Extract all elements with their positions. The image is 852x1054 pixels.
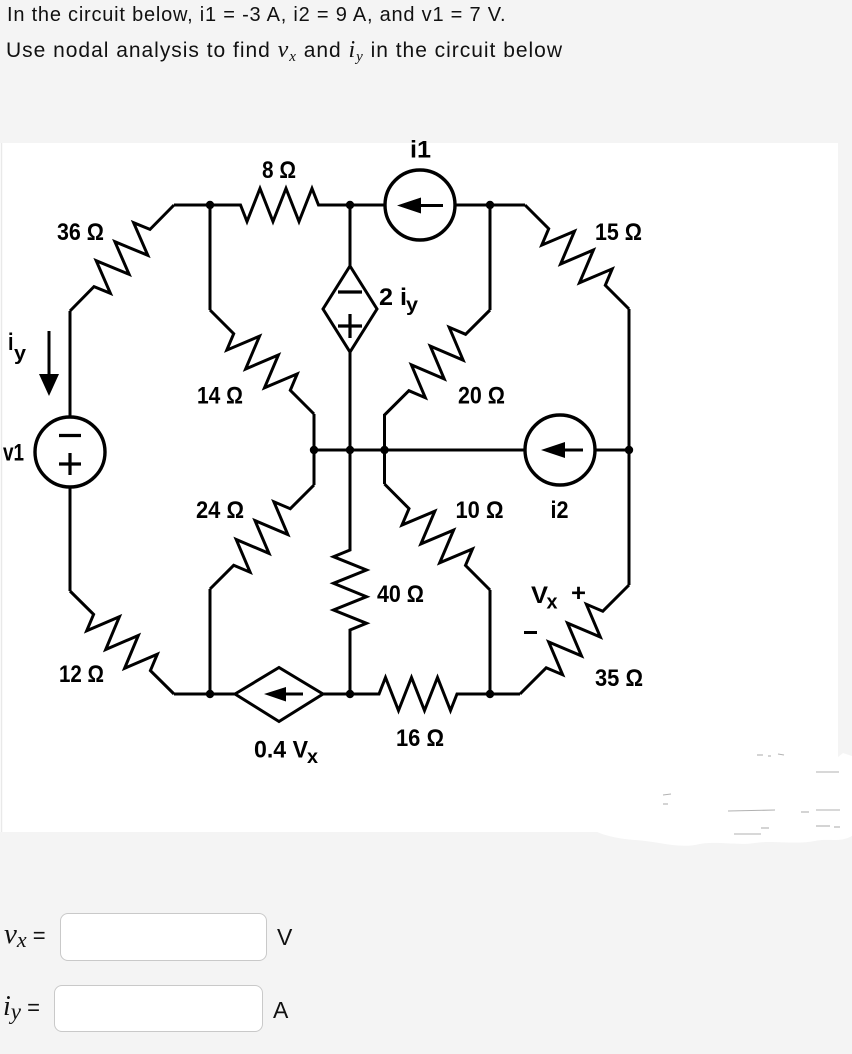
white corner patch (erased area): [838, 753, 852, 831]
svg-text:V: V: [531, 582, 548, 609]
resistor 16 ohm: [350, 678, 490, 711]
node H (bottom-left) junction dot: [206, 690, 214, 698]
node G (mid-right) junction dot: [625, 446, 633, 454]
resistor 8 ohm: [210, 189, 350, 222]
svg-text:20 Ω: 20 Ω: [458, 383, 505, 410]
wire v1 to 12-ohm vertical: [69, 487, 72, 591]
svg-text:i1: i1: [410, 137, 431, 164]
wire 36-ohm to v1 vertical: [69, 311, 72, 417]
svg-text:y: y: [406, 295, 418, 316]
wire middle rail right segment: [595, 449, 629, 452]
label Vx minus sign: [524, 631, 537, 634]
svg-text:35 Ω: 35 Ω: [595, 665, 643, 692]
answer row iy: [3, 991, 40, 1025]
wire 24-ohm lower lead vertical: [209, 589, 212, 694]
wire node B to dep source top: [349, 205, 352, 266]
current source i2: [525, 415, 595, 485]
wire vertical through node C (14-ohm to 24-ohm): [313, 414, 316, 485]
wire top rail node B to i1: [347, 204, 385, 207]
wire bottom rail left segment: [174, 693, 235, 696]
wire top rail left segment: [174, 204, 213, 207]
node F (mid) junction dot: [380, 446, 388, 454]
svg-text:14 Ω: 14 Ω: [197, 383, 243, 410]
resistor 15 ohm: [525, 205, 629, 309]
svg-text:0.4 V: 0.4 V: [254, 737, 308, 764]
resistor 40 ohm: [334, 450, 367, 694]
question text line 2: [6, 37, 563, 66]
white wavy erased bulge along bottom edge: [595, 831, 852, 846]
wire middle rail left segment: [314, 449, 525, 452]
wire bottom rail right segment: [490, 693, 520, 696]
resistor 36 ohm: [70, 205, 174, 311]
svg-text:40 Ω: 40 Ω: [377, 581, 424, 608]
resistor 14 ohm: [210, 310, 314, 414]
node I (bottom-center) junction dot: [346, 690, 354, 698]
faint scribble marks (erased pencil): [663, 754, 840, 834]
dependent current source 0.4Vx (diamond): [235, 668, 323, 722]
white schematic panel: [0, 143, 838, 832]
svg-text:i2: i2: [551, 497, 569, 524]
voltage source v1: [35, 417, 105, 487]
svg-text:12 Ω: 12 Ω: [59, 661, 104, 688]
dependent voltage source 2iy (diamond): [323, 266, 377, 352]
svg-text:2 i: 2 i: [379, 284, 407, 311]
svg-text:+: +: [571, 580, 586, 607]
question text line 1: [7, 4, 506, 27]
node C (top-right) junction dot: [486, 201, 494, 209]
wire dep source bottom to middle rail: [349, 352, 352, 450]
svg-text:36 Ω: 36 Ω: [57, 219, 104, 246]
resistor 10 ohm: [385, 484, 491, 590]
svg-text:8 Ω: 8 Ω: [262, 157, 296, 184]
node D (mid-left) junction dot: [310, 446, 318, 454]
node J (bottom-right) junction dot: [486, 690, 494, 698]
svg-text:24 Ω: 24 Ω: [196, 497, 244, 524]
resistor 24 ohm: [210, 485, 314, 589]
node A (top-left) junction dot: [206, 201, 214, 209]
svg-text:x: x: [307, 747, 318, 768]
wire vertical through node D (20-ohm to 10-ohm): [383, 414, 386, 484]
svg-text:v1: v1: [3, 440, 24, 467]
resistor 35 ohm: [520, 585, 629, 694]
wire 14-ohm upper lead vertical: [209, 205, 212, 310]
resistor 12 ohm: [70, 591, 174, 694]
iy current direction arrow: [39, 331, 59, 396]
current source i1: [385, 170, 455, 240]
wire right vertical 15-ohm to 35-ohm: [628, 309, 631, 585]
svg-text:x: x: [547, 592, 558, 614]
wire top rail right segment: [455, 204, 525, 207]
svg-text:10 Ω: 10 Ω: [456, 497, 504, 524]
wire 20-ohm upper lead vertical: [489, 205, 492, 310]
wire diamond right tip to bottom rail: [323, 693, 352, 696]
svg-text:15 Ω: 15 Ω: [595, 219, 642, 246]
wire 10-ohm lower lead vertical: [489, 590, 492, 694]
resistor 20 ohm: [385, 310, 491, 415]
svg-text:y: y: [14, 343, 27, 365]
svg-text:i: i: [8, 329, 14, 356]
node E (mid-center) junction dot: [346, 446, 354, 454]
node B (top-center) junction dot: [346, 201, 354, 209]
svg-text:16 Ω: 16 Ω: [396, 725, 444, 752]
answer row vx: [4, 918, 46, 953]
